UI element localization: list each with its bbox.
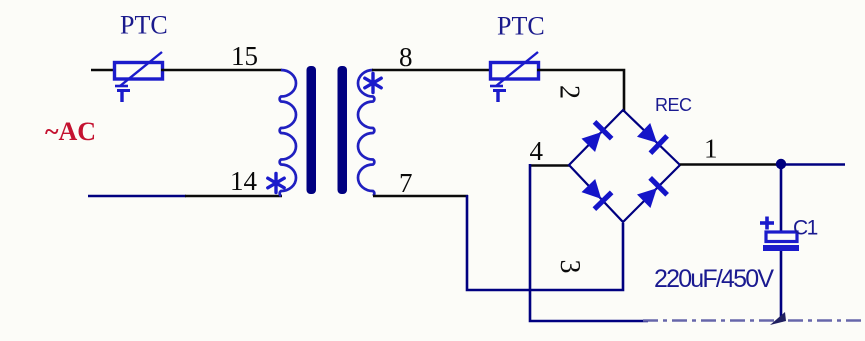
transformer polarity dot (asterisk) primary: [268, 174, 284, 193]
capacitor C1 bottom plate: [763, 245, 799, 251]
arrow mark at wire/dash junction: [770, 312, 786, 325]
wire transformer pin 8 to PTC2: [372, 69, 492, 72]
wire PTC1 to transformer pin 15: [161, 69, 282, 72]
transformer core: [307, 66, 348, 194]
svg-text:220uF/450V: 220uF/450V: [654, 265, 774, 293]
diode D3 (bottom-left edge): [580, 177, 614, 211]
wire PTC2 to bridge pin 2 (corner): [537, 70, 624, 112]
pin 15 label: [231, 41, 258, 71]
wire bridge pin 4: [530, 164, 570, 167]
svg-text:3: 3: [554, 260, 585, 274]
resistor PTC2 (thermistor symbol): [490, 52, 539, 102]
pin 14 label: [230, 166, 258, 196]
transformer T1 primary winding: [280, 70, 296, 196]
wire bridge pin 1 output: [680, 163, 781, 166]
svg-text:14: 14: [230, 166, 258, 196]
label 220uF/450V: [654, 265, 774, 293]
diode D4 (bottom-right edge): [635, 176, 669, 210]
node ~AC label: [45, 117, 96, 146]
pin 3 label (rotated): [554, 260, 585, 274]
svg-text:2: 2: [554, 85, 585, 99]
svg-text:4: 4: [530, 136, 544, 166]
pin 1 label: [704, 134, 718, 164]
label PTC2: [497, 12, 545, 41]
pin 4 label: [530, 136, 544, 166]
capacitor C1 polarity plus: [760, 217, 774, 230]
wire pin 4 down to bottom rail: [530, 164, 648, 321]
diode D1 (left-top edge): [580, 120, 614, 154]
svg-text:~AC: ~AC: [45, 117, 96, 146]
label REC: [655, 95, 692, 115]
wire junction to right end: [781, 163, 845, 166]
capacitor C1 top plate: [766, 232, 797, 242]
svg-text:C1: C1: [793, 217, 818, 240]
wire C1 bottom down: [780, 251, 783, 318]
svg-text:PTC: PTC: [497, 12, 545, 41]
wire AC bottom-left (blue part): [88, 195, 186, 198]
wire pin 7 down and right to bridge pin 3: [467, 195, 623, 290]
pin 2 label (rotated): [554, 85, 585, 99]
pin 7 label: [399, 168, 413, 198]
wire AC bottom-left (black part) to transformer pin 14: [185, 195, 282, 198]
bottom dash-dot line (watermark): [643, 319, 865, 321]
wire transformer pin 7: [373, 195, 468, 198]
label C1: [793, 217, 818, 240]
wire junction down to C1: [780, 164, 783, 232]
label PTC1: [120, 11, 168, 40]
wire AC top-left to PTC1: [91, 69, 116, 72]
svg-text:8: 8: [399, 42, 413, 72]
svg-text:1: 1: [704, 134, 718, 164]
svg-text:7: 7: [399, 168, 413, 198]
svg-text:15: 15: [231, 41, 258, 71]
svg-text:PTC: PTC: [120, 11, 168, 40]
resistor PTC1 (thermistor symbol): [115, 52, 163, 102]
diode D2 (top-right edge): [635, 121, 669, 155]
bridge rectifier REC diamond: [569, 110, 680, 222]
junction node dot: [776, 159, 786, 169]
transformer polarity dot (asterisk) secondary: [365, 74, 381, 93]
svg-text:REC: REC: [655, 95, 692, 115]
pin 8 label: [399, 42, 413, 72]
transformer T1 secondary winding: [358, 70, 374, 196]
